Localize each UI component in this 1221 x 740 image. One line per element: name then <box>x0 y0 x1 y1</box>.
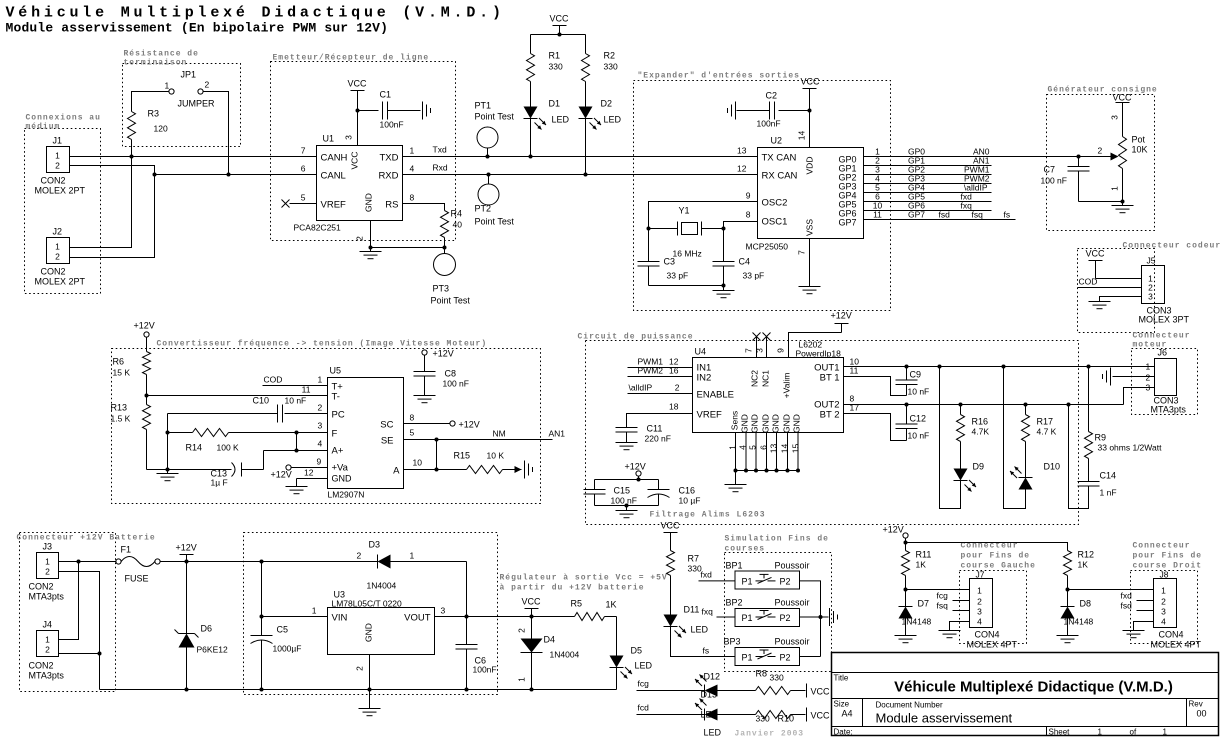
svg-text:GND: GND <box>332 474 353 484</box>
svg-text:R10: R10 <box>778 714 795 724</box>
section box Fins de course Gauche <box>960 542 1036 644</box>
svg-text:D12: D12 <box>704 672 721 682</box>
svg-text:F: F <box>332 429 338 440</box>
node VIN junction <box>260 615 264 619</box>
svg-text:P1: P1 <box>742 577 753 587</box>
svg-text:JUMPER: JUMPER <box>178 99 216 109</box>
svg-text:CON2: CON2 <box>41 267 66 277</box>
svg-text:TXD: TXD <box>380 153 399 164</box>
wire J4 pin2 <box>59 652 102 656</box>
svg-text:18: 18 <box>669 402 679 412</box>
svg-text:Poussoir: Poussoir <box>775 598 810 608</box>
LED D2 <box>579 99 622 130</box>
transistor-driver U4 L6202 <box>693 340 844 433</box>
net label fs <box>1004 210 1011 220</box>
wire PWM1 input <box>628 357 693 368</box>
svg-text:fsq: fsq <box>972 210 984 220</box>
ground C2 sideways <box>728 102 736 120</box>
svg-text:4.7K: 4.7K <box>972 427 990 437</box>
svg-text:U1: U1 <box>323 134 335 144</box>
pin 2 pot <box>1098 146 1103 156</box>
node gnd rail junction <box>166 468 170 472</box>
resistor R2 <box>582 51 618 82</box>
svg-text:fxd: fxd <box>701 570 713 580</box>
svg-text:PCA82C251: PCA82C251 <box>294 223 342 233</box>
svg-text:Connecteur codeur: Connecteur codeur <box>1123 242 1221 251</box>
svg-text:BP1: BP1 <box>726 561 743 571</box>
wire +Valim to +12V <box>776 324 842 358</box>
wire VREF no-connect <box>282 200 317 208</box>
svg-text:courses: courses <box>725 545 766 554</box>
svg-text:PC: PC <box>332 410 345 421</box>
svg-text:LED: LED <box>635 661 653 671</box>
svg-text:pour Fins de: pour Fins de <box>1133 552 1203 561</box>
svg-text:C11: C11 <box>647 424 663 434</box>
wire BP1 right <box>800 581 821 657</box>
svg-text:D11: D11 <box>684 605 700 615</box>
section box Fins de course Droit <box>1131 542 1203 644</box>
svg-text:MTA3pts: MTA3pts <box>29 592 65 602</box>
svg-text:R12: R12 <box>1078 550 1095 560</box>
connector J2 <box>35 227 86 287</box>
test point PT1 <box>475 101 515 159</box>
svg-text:Simulation Fins de: Simulation Fins de <box>725 535 829 544</box>
svg-text:P2: P2 <box>780 613 791 623</box>
svg-text:BT 1: BT 1 <box>820 373 840 384</box>
ground D8 <box>1057 636 1079 643</box>
svg-text:D5: D5 <box>631 646 643 656</box>
title text <box>6 5 505 22</box>
wire U3 GND down <box>355 655 370 709</box>
svg-text:C10: C10 <box>253 396 270 406</box>
wire D2 to Rxd <box>584 119 588 177</box>
svg-text:GND: GND <box>761 414 771 433</box>
svg-text:1: 1 <box>977 586 982 596</box>
svg-text:13: 13 <box>737 146 747 156</box>
wire CANH <box>70 156 317 158</box>
svg-text:LED: LED <box>704 728 722 738</box>
LED D1 <box>524 99 570 130</box>
LED D9 <box>954 462 985 492</box>
wire filtrage bottom rail <box>595 504 659 508</box>
op-amp U5 LM2907N <box>328 366 404 500</box>
LED D5 <box>610 646 653 679</box>
wire fsd to J8 <box>1121 601 1154 611</box>
svg-text:MOLEX 2PT: MOLEX 2PT <box>35 186 86 196</box>
svg-text:1: 1 <box>165 81 170 91</box>
capacitor C16 <box>648 480 701 506</box>
svg-text:U5: U5 <box>330 366 342 376</box>
pin 17 U4 <box>850 403 860 413</box>
net label PWM1 <box>964 165 990 175</box>
test point PT2 <box>475 173 515 227</box>
resistor R6 <box>113 352 151 378</box>
svg-text:Rxd: Rxd <box>433 163 448 173</box>
svg-text:J5: J5 <box>1147 256 1156 266</box>
section box Resistance de terminaison <box>123 50 241 147</box>
svg-text:P1: P1 <box>742 653 753 663</box>
wire D3 to VOUT <box>466 562 468 617</box>
svg-text:fxq: fxq <box>961 201 973 211</box>
wire GP3 net <box>864 174 992 184</box>
svg-text:ENABLE: ENABLE <box>697 390 735 401</box>
svg-text:C1: C1 <box>380 90 392 100</box>
svg-text:15 K: 15 K <box>113 368 131 378</box>
wire SE NM AN1 <box>404 428 566 440</box>
wire U5 GND <box>297 468 328 487</box>
potentiometer Pot 10K <box>1119 135 1148 169</box>
svg-text:P1: P1 <box>742 613 753 623</box>
capacitor C12 <box>896 405 930 441</box>
section box Regulateur <box>244 533 668 695</box>
ground U5 <box>286 487 308 494</box>
wire C5 branch <box>261 562 263 636</box>
resistor R8 <box>718 669 806 695</box>
pin 12 U2 <box>737 164 747 174</box>
svg-text:4.7 K: 4.7 K <box>1037 427 1057 437</box>
svg-text:PowerdIp18: PowerdIp18 <box>796 349 842 359</box>
pin 3 pot <box>1110 115 1120 120</box>
svg-text:Date:: Date: <box>834 728 853 737</box>
svg-text:LED: LED <box>552 115 570 125</box>
svg-text:fcd: fcd <box>638 703 650 713</box>
svg-text:3: 3 <box>441 606 446 616</box>
svg-text:Générateur consigne: Générateur consigne <box>1048 86 1158 95</box>
diode D8 1N4148 <box>1061 590 1094 636</box>
svg-text:Véhicule Multiplexé Didactique: Véhicule Multiplexé Didactique (V.M.D.) <box>894 679 1173 696</box>
svg-text:R1: R1 <box>549 51 561 61</box>
svg-text:100nF: 100nF <box>757 119 781 129</box>
svg-text:100 K: 100 K <box>217 443 240 453</box>
svg-text:CANL: CANL <box>321 171 346 182</box>
svg-text:8: 8 <box>410 413 415 423</box>
wire VIN <box>262 606 328 617</box>
svg-text:J8: J8 <box>1160 570 1169 580</box>
svg-text:2: 2 <box>45 567 50 577</box>
net label AN0 <box>973 147 990 157</box>
pin 4 U1 <box>410 164 415 174</box>
power +12V filtrage <box>625 462 646 480</box>
svg-text:J3: J3 <box>43 542 53 552</box>
capacitor C10 <box>168 396 328 423</box>
ground BP sideways <box>821 608 838 626</box>
svg-text:2: 2 <box>1146 373 1151 383</box>
wire R17 to D10 <box>1025 442 1027 478</box>
svg-text:MCP25050: MCP25050 <box>746 242 789 252</box>
wire BT1 <box>844 377 907 396</box>
svg-text:+12V: +12V <box>433 349 454 359</box>
svg-text:J6: J6 <box>1158 348 1168 358</box>
svg-text:7: 7 <box>797 250 807 255</box>
svg-text:U2: U2 <box>771 136 783 146</box>
node OUT2 R16 <box>959 403 963 407</box>
svg-text:1: 1 <box>312 606 317 616</box>
svg-text:12: 12 <box>304 468 314 478</box>
svg-text:1K: 1K <box>916 560 927 570</box>
svg-text:\alldIP: \alldIP <box>629 383 653 393</box>
svg-text:3: 3 <box>977 607 982 617</box>
node VCC C2 junction <box>808 109 812 113</box>
wire GP1 net <box>864 156 992 166</box>
svg-text:J2: J2 <box>53 227 63 237</box>
svg-text:Circuit de puissance: Circuit de puissance <box>578 333 694 342</box>
svg-text:2: 2 <box>55 161 60 171</box>
power +12V U4 <box>831 311 852 324</box>
section box Expander <box>634 72 891 311</box>
pin 7 U2 <box>797 250 807 255</box>
svg-text:6: 6 <box>301 164 306 174</box>
svg-text:2: 2 <box>355 236 365 241</box>
wire Txd <box>403 145 758 157</box>
wire GP0 net <box>864 147 1118 157</box>
svg-text:fcg: fcg <box>937 591 949 601</box>
svg-text:C3: C3 <box>664 257 676 267</box>
svg-text:D3: D3 <box>369 540 381 550</box>
section box Convertisseur frequence <box>112 340 541 504</box>
svg-text:Pot: Pot <box>1132 135 1146 145</box>
svg-text:3: 3 <box>1110 115 1120 120</box>
svg-text:1: 1 <box>517 677 527 682</box>
wire bottom bus <box>100 688 617 692</box>
wire R2 to D2 <box>585 82 587 107</box>
svg-text:Point Test: Point Test <box>475 217 515 227</box>
ground U3 <box>359 709 381 716</box>
svg-text:CON4: CON4 <box>975 630 1000 640</box>
capacitor C11 <box>616 424 671 444</box>
svg-text:C15: C15 <box>614 486 631 496</box>
svg-text:Connecteur: Connecteur <box>1133 542 1191 551</box>
svg-text:4: 4 <box>1161 617 1166 627</box>
wire J8 pin4 gnd <box>1134 622 1154 631</box>
svg-text:+12V: +12V <box>459 420 480 430</box>
svg-text:PT3: PT3 <box>433 284 450 294</box>
wire fcg net <box>637 679 705 691</box>
ground U2 VSS <box>799 287 821 294</box>
svg-text:C12: C12 <box>910 414 927 424</box>
svg-text:MOLEX 4PT: MOLEX 4PT <box>967 640 1018 650</box>
resistor R14 <box>168 429 328 453</box>
pin 5 U1 <box>301 193 306 203</box>
svg-text:D4: D4 <box>544 635 556 645</box>
svg-text:VREF: VREF <box>697 410 723 421</box>
capacitor C3 <box>638 257 689 286</box>
resistor R7 <box>667 551 702 576</box>
svg-text:C5: C5 <box>277 625 289 635</box>
svg-text:2: 2 <box>55 252 60 262</box>
pin 2 U5 <box>318 403 323 413</box>
svg-text:3: 3 <box>1161 607 1166 617</box>
svg-text:1: 1 <box>1146 362 1151 372</box>
node R4 junction <box>443 246 447 250</box>
svg-text:2: 2 <box>1098 146 1103 156</box>
wire C7 to pot bottom <box>1079 169 1125 204</box>
wire R16 to D9 <box>960 442 962 469</box>
svg-text:R8: R8 <box>756 669 768 679</box>
svg-text:Convertisseur fréquence -> ten: Convertisseur fréquence -> tension (Imag… <box>157 340 488 349</box>
svg-text:Size: Size <box>834 700 850 709</box>
svg-text:16 MHz: 16 MHz <box>673 249 702 259</box>
wire GP6 net <box>864 201 992 211</box>
svg-text:2: 2 <box>357 551 362 561</box>
svg-text:220 nF: 220 nF <box>645 434 671 444</box>
svg-text:1N4004: 1N4004 <box>367 581 397 591</box>
pin 6 U1 <box>301 164 306 174</box>
ground J6 sideways <box>1103 368 1111 386</box>
svg-text:GND: GND <box>364 623 374 642</box>
svg-text:4: 4 <box>410 164 415 174</box>
wire fsq to J7 <box>937 601 970 611</box>
svg-text:CON2: CON2 <box>29 661 54 671</box>
switch BP2 Poussoir <box>726 598 810 627</box>
switch BP1 Poussoir <box>726 561 810 590</box>
svg-text:SC: SC <box>380 420 393 431</box>
svg-text:Véhicule Multiplexé Didactique: Véhicule Multiplexé Didactique (V.M.D.) <box>6 5 505 22</box>
crystal Y1 16MHz <box>649 206 724 259</box>
net label fxd <box>961 192 973 202</box>
svg-text:J4: J4 <box>43 620 53 630</box>
connector J1 <box>35 136 86 196</box>
svg-text:T-: T- <box>332 392 340 403</box>
resistor R15 <box>454 451 522 474</box>
svg-text:GP7: GP7 <box>839 218 857 228</box>
svg-text:terminaison: terminaison <box>124 59 188 68</box>
connector J3 <box>29 542 65 602</box>
svg-text:MTA3pts: MTA3pts <box>1151 405 1187 415</box>
node CANL junction <box>153 173 157 177</box>
wire BT2 <box>844 414 907 441</box>
node F junction x295 <box>295 431 299 435</box>
svg-text:16: 16 <box>669 366 679 376</box>
svg-text:VCC: VCC <box>661 521 681 531</box>
svg-text:100 nF: 100 nF <box>443 379 469 389</box>
node F rail junction <box>166 431 170 435</box>
svg-text:fs: fs <box>1004 210 1011 220</box>
svg-text:330: 330 <box>770 673 784 683</box>
net label fxq <box>961 201 973 211</box>
svg-text:Janvier 2003: Janvier 2003 <box>735 730 805 739</box>
wire D5 to bus <box>616 668 618 690</box>
svg-text:F1: F1 <box>121 545 132 555</box>
svg-text:VOUT: VOUT <box>404 613 431 624</box>
svg-text:R15: R15 <box>454 451 471 461</box>
node T- junction <box>145 394 149 398</box>
svg-text:VCC: VCC <box>350 152 360 170</box>
svg-text:7: 7 <box>744 348 754 353</box>
svg-text:D2: D2 <box>601 99 613 109</box>
section box Generateur consigne <box>1047 86 1158 231</box>
ground converter <box>157 470 179 481</box>
test point PT3 <box>431 254 471 306</box>
svg-text:fsd: fsd <box>939 210 951 220</box>
wire BP3 right <box>800 656 821 658</box>
ground R15 sideways <box>515 461 533 479</box>
svg-text:2: 2 <box>977 597 982 607</box>
wire PWM2 input <box>628 366 693 377</box>
svg-text:MOLEX 4PT: MOLEX 4PT <box>1151 640 1202 650</box>
pin 11 U4 <box>850 366 859 376</box>
svg-text:C14: C14 <box>1100 471 1117 481</box>
svg-text:J1: J1 <box>53 136 63 146</box>
wire SC +12V <box>404 413 480 430</box>
svg-text:1: 1 <box>1163 728 1168 737</box>
capacitor C15 <box>584 480 637 506</box>
svg-text:3: 3 <box>755 348 765 353</box>
svg-text:Point Test: Point Test <box>475 112 515 122</box>
svg-text:1.5 K: 1.5 K <box>111 414 131 424</box>
svg-text:COD: COD <box>264 375 283 385</box>
power +12V fins <box>883 525 909 545</box>
wire J7 pin4 gnd <box>950 622 970 631</box>
wire J6 pin2 gnd <box>1113 376 1155 378</box>
svg-text:1: 1 <box>1161 586 1166 596</box>
ground D7 <box>895 636 917 643</box>
node jumper CANL junction <box>227 173 231 177</box>
svg-text:330: 330 <box>549 62 563 72</box>
wire R13 down to rail <box>146 430 148 470</box>
wire D11 to fs <box>671 627 736 657</box>
wire oscillator ground rail <box>649 284 726 291</box>
wire OUT1 net <box>844 366 1155 368</box>
svg-text:1: 1 <box>410 551 415 561</box>
power VCC U1 <box>348 79 368 146</box>
svg-text:TX CAN: TX CAN <box>762 153 797 164</box>
capacitor C14 <box>1078 459 1117 498</box>
node crystal left junction <box>647 227 651 231</box>
pin 9 U2 <box>746 191 751 201</box>
power +12V battery <box>176 543 197 564</box>
svg-text:RS: RS <box>385 200 398 211</box>
svg-text:fsd: fsd <box>1121 601 1133 611</box>
wire R3 to CANH <box>131 140 133 157</box>
svg-text:+12V: +12V <box>271 470 292 480</box>
svg-text:3: 3 <box>318 421 323 431</box>
svg-text:100 nF: 100 nF <box>611 496 637 506</box>
pin 1 U1 <box>410 146 415 156</box>
svg-text:P2: P2 <box>780 653 791 663</box>
svg-text:R7: R7 <box>688 554 700 564</box>
svg-text:2: 2 <box>355 666 365 671</box>
svg-text:D1: D1 <box>549 99 561 109</box>
svg-text:Sens: Sens <box>730 411 740 430</box>
ground U4 <box>725 471 747 492</box>
resistor R3 <box>128 109 168 140</box>
svg-text:Rev: Rev <box>1189 700 1203 709</box>
svg-text:VIN: VIN <box>332 613 348 624</box>
svg-text:VCC: VCC <box>801 77 821 87</box>
wire R6 to R13 <box>146 375 148 405</box>
svg-text:LM78L05C/T 0220: LM78L05C/T 0220 <box>332 599 403 609</box>
pin 2 U1 <box>355 236 365 241</box>
svg-text:D6: D6 <box>201 624 213 634</box>
section box Connecteur moteur <box>1132 332 1198 415</box>
svg-text:A+: A+ <box>332 446 344 457</box>
svg-text:+12V: +12V <box>831 311 852 321</box>
svg-text:D10: D10 <box>1044 462 1061 472</box>
svg-text:1 nF: 1 nF <box>1100 488 1117 498</box>
ground J8 pin4 <box>1123 631 1145 638</box>
svg-text:1: 1 <box>1098 728 1103 737</box>
net label PWM2 <box>964 174 990 184</box>
fuse F1 <box>116 545 160 584</box>
node U1 gnd junction <box>369 246 373 250</box>
svg-text:C9: C9 <box>910 370 922 380</box>
svg-text:Régulateur à sortie Vcc = +5V: Régulateur à sortie Vcc = +5V <box>500 574 668 583</box>
svg-text:12: 12 <box>737 164 747 174</box>
wire J1 pin2 to CANL <box>70 166 155 175</box>
svg-text:NC2: NC2 <box>750 370 760 387</box>
ground filtrage <box>616 506 638 518</box>
svg-text:NM: NM <box>493 429 506 439</box>
